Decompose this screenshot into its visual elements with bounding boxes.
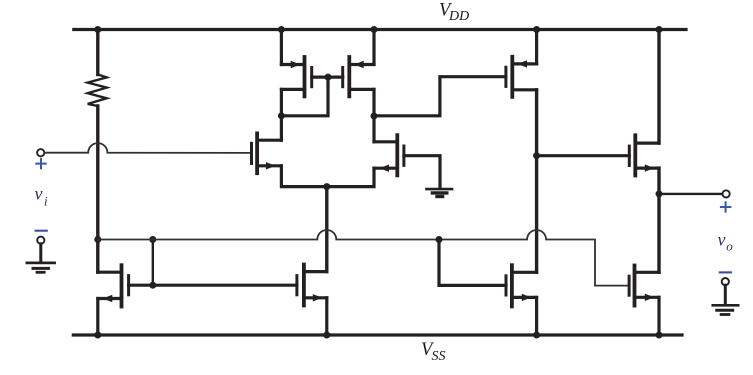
wire node C to Q5 drain (tail) xyxy=(325,187,328,272)
output wire xyxy=(659,193,723,195)
wire Q8 gate to Q5 gate xyxy=(129,284,297,287)
transistor Q7 PMOS second stage xyxy=(506,57,537,97)
transistor Q1 NMOS diff-pair left xyxy=(252,133,282,173)
wire Q4 drain to node B xyxy=(372,89,375,116)
wire Q5 source to VSS xyxy=(325,298,328,335)
wire input to Q1 gate with hop xyxy=(44,143,250,153)
wire bias tap xyxy=(152,240,154,286)
wire Q3 Q4 gate tie xyxy=(281,77,342,116)
wire resistor to bias node xyxy=(96,106,99,272)
bias Q6 tap dot xyxy=(436,236,443,243)
bias wire with hops to Q10 gate xyxy=(98,230,629,286)
node B dot xyxy=(371,113,378,120)
transistor Q6 NMOS second stage source xyxy=(506,265,537,306)
label vi xyxy=(35,184,49,209)
output node dot xyxy=(656,190,663,197)
bias tap dots xyxy=(149,236,156,243)
wire Q7 drain to node D and Q6 drain xyxy=(535,90,538,272)
transistor Q4 PMOS mirror right xyxy=(343,57,374,96)
node C dot xyxy=(323,183,330,190)
label VDD xyxy=(439,0,469,24)
svg-text:SS: SS xyxy=(432,349,446,364)
input terminal vi plus xyxy=(36,149,45,168)
transistor Q5 NMOS tail source xyxy=(297,265,327,306)
svg-text:i: i xyxy=(44,194,48,209)
wire Q2 source to node C xyxy=(327,168,374,186)
wire VDD to Q9 drain xyxy=(657,30,660,144)
ground at Q2 gate xyxy=(427,189,453,196)
wire Q1 source to node C xyxy=(281,166,326,187)
transistor Q10 NMOS output source xyxy=(629,266,659,306)
VSS rail xyxy=(73,333,682,336)
resistor R xyxy=(88,30,107,107)
gate junction dot xyxy=(325,74,332,81)
VDD junction dots xyxy=(94,26,101,33)
wire VDD to Q7 source xyxy=(535,30,538,64)
VDD rail xyxy=(74,28,686,31)
wire VDD to Q3 source xyxy=(280,30,283,65)
wire node B to Q7 gate xyxy=(374,77,506,116)
node D dot xyxy=(533,152,540,159)
wire bias to Q6 gate xyxy=(439,240,506,286)
node A dot xyxy=(278,112,285,119)
transistor Q8 NMOS bias diode xyxy=(98,265,129,306)
output ground xyxy=(713,272,738,314)
wire Q8 source to VSS xyxy=(96,299,99,336)
wire VDD to Q4 source xyxy=(372,30,375,65)
wire Q10 source to VSS xyxy=(657,297,660,335)
svg-text:DD: DD xyxy=(448,9,469,24)
wire Q9 source to output node and Q10 drain xyxy=(657,168,660,272)
svg-text:o: o xyxy=(726,239,733,254)
svg-text:v: v xyxy=(35,184,43,204)
input ground xyxy=(27,231,55,273)
transistor Q2 NMOS diff-pair right xyxy=(374,135,404,175)
transistor Q9 NMOS source follower xyxy=(629,135,659,175)
wire Q6 source to VSS xyxy=(535,297,538,335)
svg-text:v: v xyxy=(718,230,726,250)
bias node dot xyxy=(94,236,101,243)
transistor Q3 PMOS mirror left xyxy=(281,57,311,96)
output terminal vo plus xyxy=(721,190,730,211)
label VSS xyxy=(421,340,446,364)
wire Q3 drain to node A xyxy=(280,89,283,115)
wire node D to Q9 gate xyxy=(537,154,630,157)
label vo xyxy=(718,230,734,254)
wire Q2 gate to ground xyxy=(404,156,440,188)
wire Q2 drain to node B xyxy=(372,116,375,142)
VSS junction dots xyxy=(94,332,101,339)
wire Q1 drain to node A xyxy=(280,116,283,140)
